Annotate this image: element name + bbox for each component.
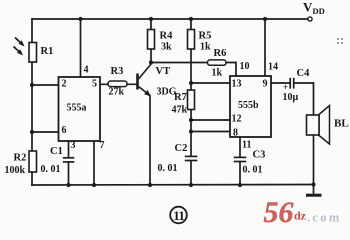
wire 555a pin6	[32, 131, 59, 133]
op-amp U1 555a chip body	[59, 77, 101, 141]
svg-text:R4: R4	[160, 31, 174, 42]
svg-text:4: 4	[84, 65, 89, 76]
svg-text:5: 5	[92, 79, 97, 90]
junction rail / C2	[189, 183, 193, 187]
junction left column / pin2	[30, 83, 34, 87]
capacitor C1	[62, 157, 76, 162]
svg-text:R7: R7	[174, 92, 187, 103]
wire emitter to rail	[149, 96, 151, 186]
svg-text:C3: C3	[253, 150, 266, 161]
wire 555a pin4 to rail	[80, 19, 82, 77]
capacitor C3	[233, 157, 248, 162]
svg-text:R6: R6	[214, 48, 227, 59]
wire speaker to ground	[313, 135, 315, 195]
svg-text:dz: dz	[294, 209, 307, 223]
junction top rail / pin14	[263, 17, 267, 21]
svg-text:0. 01: 0. 01	[158, 163, 178, 174]
photoresistor R1	[14, 38, 37, 63]
svg-text:56: 56	[264, 196, 294, 226]
svg-text:.com: .com	[307, 211, 342, 225]
junction left column / pin6	[30, 130, 34, 134]
svg-text:VT: VT	[156, 66, 171, 77]
svg-text:DD: DD	[313, 6, 325, 16]
svg-text:0. 01: 0. 01	[243, 165, 263, 176]
svg-text:3k: 3k	[161, 42, 172, 53]
wire R6 to 555b pin10	[226, 63, 236, 77]
wire 555a pin2	[32, 84, 59, 86]
svg-text:R3: R3	[111, 66, 124, 77]
svg-text:27k: 27k	[109, 87, 125, 98]
junction rail / pin7	[92, 183, 96, 187]
junction top rail / R5	[189, 17, 193, 21]
junction R7 / pin12	[189, 118, 193, 122]
figure number 11 circled	[170, 207, 187, 224]
junction rail / C3	[238, 183, 242, 187]
wire 555a pin3 to C1 and rail	[68, 141, 70, 185]
svg-text:3: 3	[71, 140, 76, 151]
wire 555b pin12	[191, 119, 230, 121]
svg-text:V: V	[303, 0, 313, 15]
svg-text:11: 11	[242, 140, 251, 151]
capacitor C4	[283, 78, 294, 92]
svg-text:47k: 47k	[172, 105, 188, 116]
wire left column (R1/R2 branch)	[31, 19, 33, 185]
svg-text:11: 11	[173, 208, 184, 223]
svg-text:R1: R1	[41, 46, 54, 57]
svg-text:100k: 100k	[5, 165, 26, 176]
svg-text:555a: 555a	[67, 103, 87, 114]
svg-text:C1: C1	[50, 146, 63, 157]
wire R4 column	[150, 19, 152, 63]
wire 555b pin13	[191, 82, 230, 84]
wire 555b pin8	[191, 131, 230, 133]
resistor R3	[108, 81, 127, 87]
svg-text:555b: 555b	[238, 100, 259, 111]
svg-text:10μ: 10μ	[283, 92, 299, 103]
junction rail / speaker-ground	[311, 182, 315, 186]
svg-text:R5: R5	[199, 31, 212, 42]
resistor R7	[188, 90, 195, 110]
wire 555a pin7 to rail	[93, 141, 95, 185]
wire 555b pin11 to C3 and rail	[239, 137, 241, 185]
wire 555b pin9 to C4	[271, 82, 290, 84]
svg-text:12: 12	[232, 114, 242, 125]
wire bottom ground rail	[32, 184, 314, 187]
svg-text:8: 8	[233, 128, 238, 139]
svg-text:C4: C4	[297, 68, 311, 79]
junction rail / C1	[66, 183, 70, 187]
Vdd terminal	[308, 17, 312, 21]
junction top rail / R4	[149, 17, 153, 21]
scan noise	[337, 38, 343, 44]
transistor Q1 VT	[136, 64, 151, 97]
svg-text:1k: 1k	[212, 68, 223, 79]
wire collector row to R6	[151, 62, 208, 64]
wire R5 column	[190, 19, 192, 90]
svg-text:C2: C2	[175, 143, 188, 154]
svg-text:+: +	[283, 82, 288, 92]
resistor R5	[188, 30, 195, 50]
junction collector / R4	[149, 60, 153, 64]
junction top rail / pin4	[78, 17, 82, 21]
svg-text:13: 13	[232, 79, 242, 90]
junction R7 / pin8	[189, 129, 193, 133]
svg-text:1k: 1k	[200, 42, 211, 53]
ground	[306, 194, 322, 197]
svg-text:10: 10	[240, 61, 250, 72]
resistor R4	[148, 30, 155, 50]
resistor R2	[29, 151, 37, 172]
svg-text:9: 9	[263, 79, 268, 90]
svg-text:6: 6	[62, 125, 67, 136]
wire C4 to speaker	[294, 83, 314, 115]
resistor R6	[208, 60, 227, 65]
wire top supply rail	[32, 18, 308, 20]
junction rail / emitter	[148, 183, 152, 187]
speaker BL	[307, 106, 330, 145]
junction R5 / pin13 / R7	[189, 81, 193, 85]
svg-text:0. 01: 0. 01	[41, 164, 61, 175]
wire R7 to C2 to rail	[190, 110, 192, 186]
op-amp U2 555b chip body	[230, 76, 271, 137]
wire 555a pin5 to R3 to base	[100, 83, 137, 85]
svg-text:7: 7	[100, 140, 105, 151]
svg-text:R2: R2	[14, 153, 27, 164]
svg-text:BL: BL	[334, 118, 349, 130]
capacitor C2	[184, 156, 199, 161]
svg-text:2: 2	[62, 79, 67, 90]
svg-text:14: 14	[268, 62, 278, 73]
wire 555b pin14 to rail	[264, 19, 266, 76]
